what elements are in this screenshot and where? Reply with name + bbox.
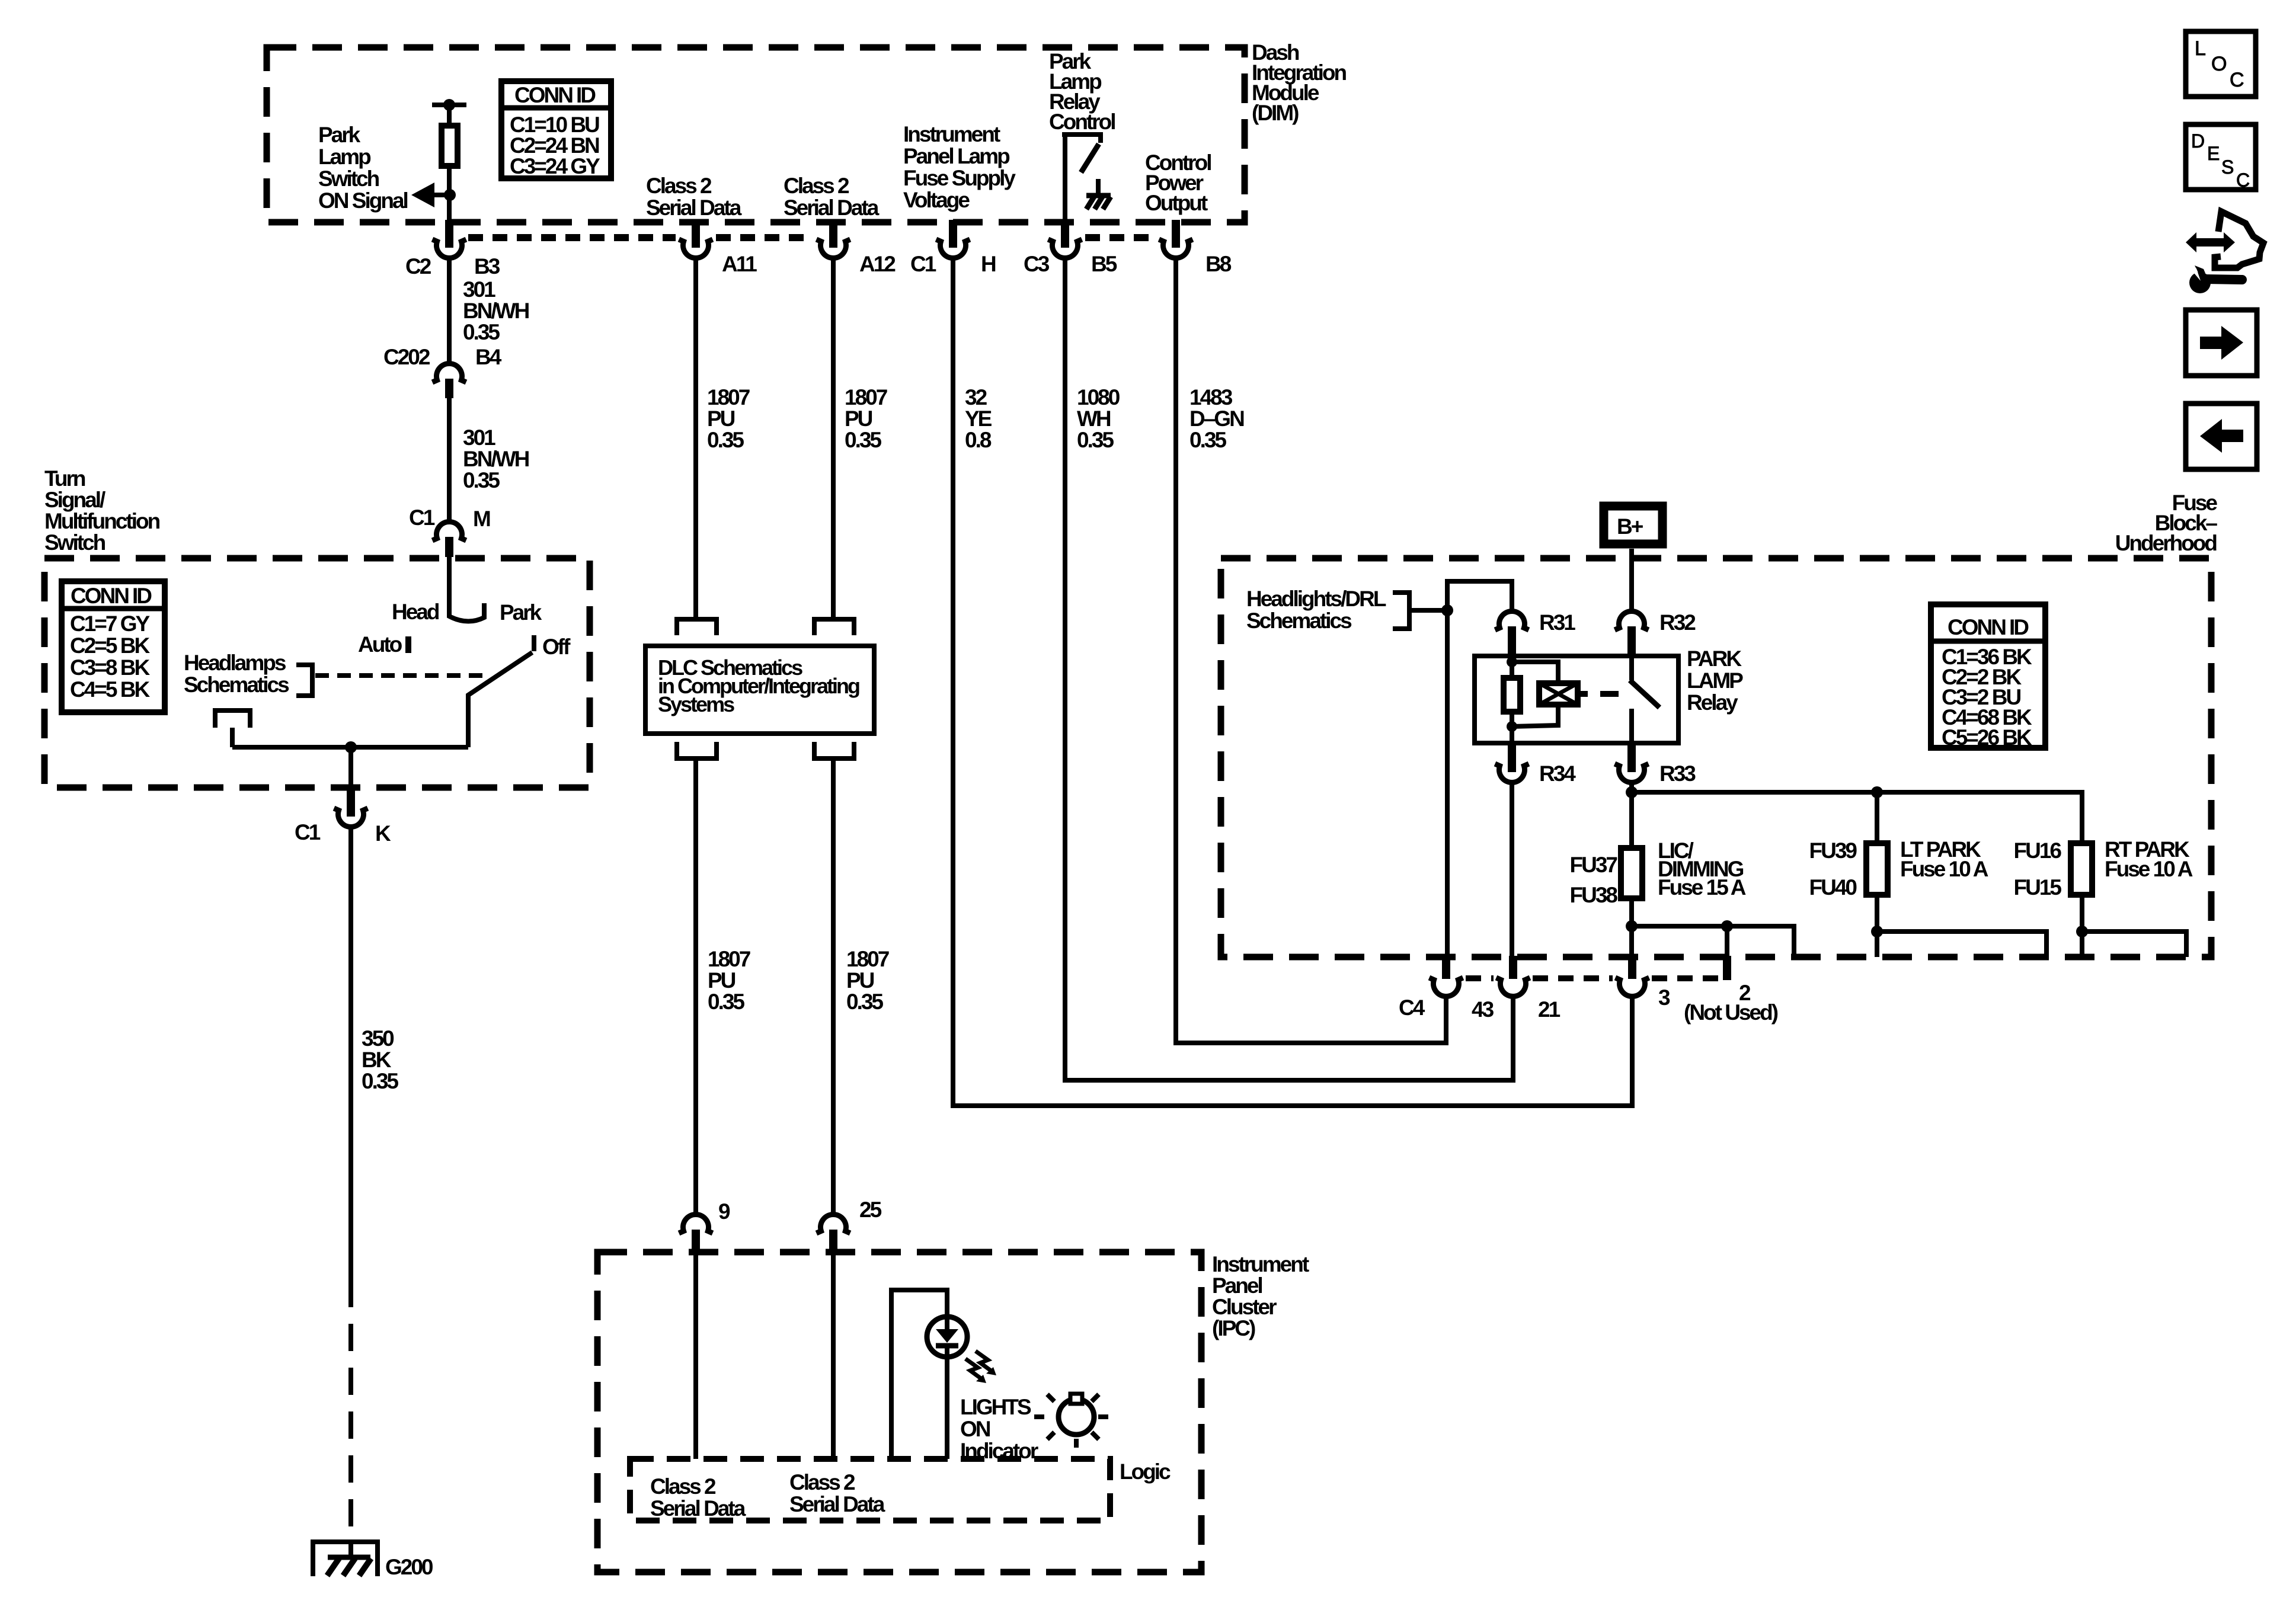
relay actuator dash [1600, 691, 1619, 697]
junction dot on stub bar [443, 99, 455, 111]
svg-text:Fuse Supply: Fuse Supply [903, 166, 1016, 190]
wire pin 25 to logic [831, 1253, 836, 1459]
fuse supply rail [1632, 792, 2082, 843]
connector R32 stub [1627, 626, 1636, 658]
svg-text:K: K [375, 821, 391, 846]
svg-text:C1: C1 [295, 820, 321, 844]
pin B3 stub [445, 220, 453, 248]
relay coil wire bottom [1510, 712, 1514, 743]
svg-text:PARK: PARK [1687, 646, 1742, 671]
connector R31 arc [1495, 612, 1529, 630]
svg-text:ON Signal: ON Signal [318, 188, 408, 213]
svg-text:G200: G200 [385, 1555, 433, 1579]
pin A11 connector arc [679, 239, 713, 258]
svg-text:CONNID: CONNID [71, 584, 152, 608]
svg-text:Multifunction: Multifunction [44, 509, 160, 533]
connector 9 arc [679, 1215, 713, 1233]
switch contact curve to Park [449, 603, 484, 622]
wire into turn signal switch [447, 557, 452, 605]
connector 25 arc [817, 1215, 850, 1233]
Instrument Panel Cluster (IPC) dashed box [597, 1252, 1201, 1572]
wire 1483 D-GN: B8 pin to fuse block connector 43 [1176, 256, 1446, 1043]
svg-text:Serial Data: Serial Data [650, 1496, 746, 1521]
svg-text:FU16: FU16 [2014, 838, 2062, 863]
connector 21 arc [1496, 978, 1530, 996]
fuse LIC/DIMMING FU37/38 [1621, 848, 1642, 898]
branch below RT fuse to edge [2082, 932, 2186, 957]
DLC Schematics box [645, 646, 874, 734]
bulb icon rays [1034, 1394, 1108, 1448]
ground G200 bracket [313, 1542, 378, 1576]
svg-text:C4=5 BK: C4=5 BK [70, 677, 150, 702]
svg-text:Voltage: Voltage [903, 188, 970, 212]
svg-text:3: 3 [1658, 985, 1670, 1010]
svg-text:PU: PU [708, 968, 736, 993]
svg-text:Instrument: Instrument [1212, 1252, 1309, 1276]
wire 301 BN/WH segment C202 to C1/M [447, 398, 452, 523]
connector 9 stub [692, 1230, 700, 1253]
svg-text:FU37: FU37 [1570, 853, 1617, 877]
wire R33 down to LIC fuse [1629, 780, 1634, 848]
B+ power symbol box [1604, 506, 1662, 544]
connector R31 stub [1508, 626, 1516, 658]
pin B5 stub [1061, 220, 1069, 248]
relay coil resistor [1504, 678, 1520, 712]
relay solenoid loop [1512, 662, 1558, 726]
icon: repair double arrow [2186, 232, 2235, 252]
headlamps stub bracket [215, 710, 250, 728]
wire LIC fuse down to connector 3 [1629, 898, 1634, 979]
svg-text:CONNID: CONNID [1948, 615, 2029, 639]
svg-text:R33: R33 [1659, 761, 1696, 786]
svg-text:BN/WH: BN/WH [463, 447, 529, 471]
pin 2 stub (not used) [1723, 956, 1731, 980]
wire R34 down to connector 21 [1510, 780, 1514, 957]
connector 3 arc [1616, 978, 1649, 996]
svg-text:Class 2: Class 2 [650, 1474, 716, 1499]
wire 1807 PU from DLC to pin 25 [831, 758, 836, 1216]
svg-text:Class 2: Class 2 [646, 174, 712, 198]
wire: common down to C1/K [348, 747, 353, 815]
svg-text:0.35: 0.35 [1189, 428, 1226, 452]
connector R33 arc [1615, 764, 1649, 782]
svg-text:0.35: 0.35 [1077, 428, 1114, 452]
svg-text:PU: PU [845, 406, 872, 431]
svg-text:Turn: Turn [44, 466, 85, 491]
svg-text:1807: 1807 [707, 385, 750, 409]
svg-text:Fuse 10 A: Fuse 10 A [2105, 857, 2193, 881]
svg-text:Schematics: Schematics [1246, 609, 1352, 633]
junction dot headlights tap [1441, 604, 1453, 616]
svg-text:Signal/: Signal/ [44, 488, 105, 512]
icon box LOC [2186, 31, 2256, 97]
junction dot R33 rail [1626, 786, 1638, 798]
svg-text:C1: C1 [910, 252, 936, 276]
svg-text:0.35: 0.35 [362, 1069, 398, 1093]
svg-text:301: 301 [463, 277, 495, 302]
connector R33 stub [1627, 743, 1636, 772]
pin H connector arc C1 [936, 239, 970, 258]
svg-text:Relay: Relay [1687, 690, 1738, 715]
svg-text:Class 2: Class 2 [784, 174, 849, 198]
wire LT fuse down [1875, 895, 1879, 957]
svg-text:Headlights/DRL: Headlights/DRL [1246, 587, 1386, 611]
headlights/DRL rail [1447, 581, 1512, 613]
junction dot not-used branch [1721, 920, 1733, 932]
switch common wire horizontal [232, 745, 468, 750]
CONN ID box (turn signal switch) [62, 581, 165, 712]
svg-text:Head: Head [392, 600, 439, 624]
svg-text:(IPC): (IPC) [1212, 1316, 1255, 1340]
svg-text:PU: PU [707, 406, 735, 431]
svg-text:L: L [2195, 37, 2205, 60]
connector C1/K stub [347, 788, 355, 817]
DLC lower-right stub bracket [814, 742, 854, 758]
svg-text:LIGHTS: LIGHTS [960, 1395, 1031, 1419]
svg-text:BK: BK [362, 1048, 392, 1072]
resistor: park lamp switch pull-up [442, 126, 458, 166]
svg-text:Underhood: Underhood [2115, 531, 2217, 555]
svg-text:1483: 1483 [1189, 385, 1233, 409]
svg-text:C3=24 GY: C3=24 GY [510, 154, 600, 178]
svg-text:Serial Data: Serial Data [646, 196, 742, 220]
svg-text:A11: A11 [722, 252, 757, 276]
svg-text:C2=5 BK: C2=5 BK [70, 633, 150, 658]
wire RT fuse down [2080, 895, 2084, 957]
connector C1/M arc [433, 522, 466, 540]
wire 350 BK dashed [348, 1280, 353, 1540]
svg-text:C202: C202 [383, 345, 430, 369]
svg-text:Switch: Switch [318, 167, 379, 191]
icon box right arrow [2186, 310, 2257, 376]
junction dot below LT fuse [1871, 926, 1883, 937]
svg-text:1807: 1807 [708, 947, 750, 971]
svg-text:1807: 1807 [845, 385, 887, 409]
svg-text:C: C [2230, 69, 2244, 91]
pin B8 stub [1172, 220, 1180, 248]
svg-text:301: 301 [463, 425, 495, 450]
connector 25 stub [829, 1230, 837, 1253]
LED loop wire [891, 1290, 947, 1459]
relay switch wire from R32 [1629, 656, 1634, 680]
svg-text:Cluster: Cluster [1212, 1295, 1277, 1319]
svg-text:C4: C4 [1399, 996, 1425, 1020]
svg-text:H: H [981, 252, 996, 276]
svg-text:BN/WH: BN/WH [463, 299, 529, 323]
ground hatches inside DIM [1086, 197, 1111, 209]
dotted connector line B5-B8 [1085, 234, 1156, 241]
svg-text:0.8: 0.8 [965, 428, 992, 452]
wire bracket to vertical [1409, 608, 1447, 613]
wire 1807 PU from DLC to pin 9 [693, 758, 698, 1216]
svg-text:ON: ON [960, 1417, 990, 1441]
fuse RT PARK FU16/15 [2071, 843, 2092, 895]
svg-text:Class 2: Class 2 [789, 1470, 855, 1494]
svg-text:Auto: Auto [358, 632, 402, 657]
svg-text:(DIM): (DIM) [1252, 101, 1299, 125]
svg-text:25: 25 [859, 1198, 882, 1222]
connector R34 arc [1495, 764, 1529, 782]
svg-text:43: 43 [1472, 997, 1494, 1022]
svg-text:R31: R31 [1539, 610, 1575, 635]
svg-text:Instrument: Instrument [903, 122, 1000, 146]
DLC lower-left stub bracket [677, 742, 717, 758]
wire 1807 PU from A12 down [831, 256, 836, 619]
svg-text:(Not Used): (Not Used) [1684, 1000, 1778, 1025]
wire 32 YE: H pin to fuse block connector 3 [953, 256, 1632, 1106]
junction dot coil top [1507, 657, 1517, 667]
wire pin 9 to logic [693, 1253, 698, 1459]
svg-text:D: D [2191, 130, 2204, 152]
svg-text:C3=8 BK: C3=8 BK [70, 655, 150, 680]
relay control switch wire (B5 pin up) [1062, 135, 1101, 222]
svg-text:C5=26 BK: C5=26 BK [1942, 725, 2032, 750]
connector R34 stub [1508, 743, 1516, 772]
connector C202 arc B4 [433, 364, 466, 382]
pin A11 stub [692, 220, 700, 248]
dotted connector line B3-A11-A12 [468, 234, 676, 241]
svg-text:Panel Lamp: Panel Lamp [903, 144, 1010, 168]
Turn Signal/Multifunction Switch dashed box [44, 558, 590, 788]
CONN ID box (DIM) [501, 81, 611, 178]
wire: resistor to junction [447, 166, 452, 222]
connector C1/M stub [445, 537, 453, 557]
junction dot at ON Signal arrow [444, 189, 456, 201]
svg-text:Headlamps: Headlamps [184, 651, 286, 675]
connector C202 stub [445, 379, 453, 398]
headlamps schematics bracket [296, 665, 312, 696]
ground G200 chassis bar [328, 1555, 370, 1560]
connector R32 arc [1615, 612, 1649, 630]
svg-text:0.35: 0.35 [845, 428, 881, 452]
wire: stub bar to resistor [447, 105, 452, 126]
relay control switch blade [1081, 144, 1099, 172]
svg-text:9: 9 [718, 1199, 730, 1224]
svg-text:CONNID: CONNID [514, 83, 596, 107]
pin A12 connector arc [817, 239, 850, 258]
ground stub inside DIM [1096, 179, 1101, 196]
stub to pin 2 [1725, 926, 1729, 956]
Dash Integration Module (DIM) dashed box [267, 47, 1245, 222]
svg-text:Park: Park [318, 123, 361, 147]
svg-text:PU: PU [846, 968, 874, 993]
svg-text:B3: B3 [474, 254, 500, 279]
connector C4/43 arc [1430, 978, 1463, 996]
svg-text:C2: C2 [405, 254, 431, 279]
svg-text:WH: WH [1077, 406, 1111, 431]
wire 1807 PU from A11 down [693, 256, 698, 619]
wire B+ to R32 [1629, 549, 1634, 613]
svg-text:YE: YE [965, 406, 992, 431]
relay switch lower contact [1629, 709, 1634, 743]
dashed line to Auto (headlamps schematics) [315, 673, 491, 678]
bulb icon base square [1070, 1394, 1082, 1404]
svg-text:C3: C3 [1024, 252, 1050, 276]
junction dot switch common [345, 741, 357, 753]
icon box DESC [2186, 124, 2256, 190]
wire 1080 WH: B5 pin to fuse block connector 21 [1065, 256, 1513, 1080]
LED triangle [936, 1329, 958, 1343]
LED lightning arrows [965, 1359, 983, 1380]
svg-text:B8: B8 [1205, 252, 1232, 276]
CONN ID box (fuse block) [1931, 604, 2045, 748]
svg-text:0.35: 0.35 [463, 320, 500, 344]
icon: repair part outline [2215, 212, 2263, 268]
Logic dashed box [630, 1459, 1110, 1521]
bulb icon circle [1059, 1399, 1094, 1435]
svg-text:Indicator: Indicator [960, 1439, 1038, 1463]
svg-text:0.35: 0.35 [463, 468, 500, 492]
pin B3 connector arc C2 [433, 239, 466, 258]
LED cathode bar [936, 1343, 958, 1349]
icon box left arrow [2186, 404, 2257, 469]
svg-text:Logic: Logic [1120, 1459, 1171, 1484]
wire 301 BN/WH segment B3 to C202 [447, 256, 452, 365]
svg-text:32: 32 [965, 385, 987, 409]
icon: wrench [2189, 272, 2211, 293]
svg-text:B4: B4 [475, 345, 502, 369]
svg-text:350: 350 [362, 1026, 394, 1051]
headlights/DRL bracket [1393, 593, 1409, 629]
svg-text:C: C [2236, 169, 2249, 191]
connector 3 stub [1628, 956, 1636, 979]
junction dot coil bottom [1507, 721, 1517, 732]
junction dot rail LT PARK [1871, 786, 1883, 798]
svg-text:FU38: FU38 [1570, 883, 1618, 907]
branch below LT fuse to edge [1877, 932, 2046, 957]
svg-text:0.35: 0.35 [846, 990, 883, 1014]
svg-text:Lamp: Lamp [318, 145, 371, 169]
DLC upper-right stub bracket [814, 619, 854, 635]
svg-text:A12: A12 [859, 252, 896, 276]
connector 21 stub [1509, 956, 1517, 979]
svg-text:Fuse 10 A: Fuse 10 A [1900, 857, 1988, 881]
svg-text:R32: R32 [1659, 610, 1696, 635]
svg-text:Schematics: Schematics [184, 673, 289, 697]
svg-text:Park: Park [500, 600, 542, 625]
dotted connector line C4 row [1466, 975, 1494, 981]
svg-text:0.35: 0.35 [708, 990, 744, 1014]
relay coil wire R31 down [1510, 656, 1514, 678]
svg-text:Output: Output [1145, 191, 1208, 215]
svg-text:FU39: FU39 [1809, 838, 1857, 863]
svg-text:R34: R34 [1539, 761, 1576, 786]
relay solenoid box with X [1539, 683, 1578, 705]
svg-text:FU15: FU15 [2014, 875, 2062, 900]
svg-text:FU40: FU40 [1809, 875, 1857, 900]
DLC upper-left stub bracket [677, 619, 717, 635]
svg-text:Serial Data: Serial Data [784, 196, 880, 220]
wire 350 BK solid [348, 825, 353, 1280]
svg-text:E: E [2207, 143, 2219, 164]
fuse LT PARK FU39/40 [1866, 843, 1888, 895]
svg-text:LAMP: LAMP [1687, 668, 1743, 693]
pin H stub [949, 220, 957, 248]
connector C4/43 stub [1442, 956, 1450, 979]
svg-text:0.35: 0.35 [707, 428, 744, 452]
branch below LIC fuse to edge [1632, 926, 1794, 957]
svg-text:1080: 1080 [1077, 385, 1120, 409]
svg-text:M: M [473, 507, 490, 531]
svg-text:Serial Data: Serial Data [789, 1492, 885, 1516]
svg-text:1807: 1807 [846, 947, 889, 971]
ground G200 hatches [327, 1558, 371, 1576]
node: Park Lamp Switch internal stub bar [432, 103, 466, 107]
junction dot below RT fuse [2076, 926, 2088, 937]
Off position tick [532, 635, 536, 651]
connector C1/K arc [334, 808, 368, 827]
switch blade from Off [468, 652, 532, 747]
LED circle indicator [927, 1317, 967, 1357]
svg-text:Panel: Panel [1212, 1273, 1262, 1298]
PARK LAMP Relay box [1475, 656, 1678, 743]
pin B8 connector arc [1159, 239, 1193, 258]
svg-text:Switch: Switch [44, 530, 105, 555]
wire: ON signal arrow stub [429, 193, 450, 197]
arrowhead: Park Lamp Switch ON Signal [411, 183, 434, 207]
wire up to headlamps stub bracket [230, 728, 235, 747]
svg-text:Systems: Systems [658, 692, 734, 716]
svg-text:C1=7 GY: C1=7 GY [70, 612, 151, 636]
ground G200 center stub [348, 1540, 353, 1557]
wire rail to LT fuse [1875, 792, 1879, 843]
Auto position tick [405, 636, 411, 653]
svg-text:S: S [2221, 156, 2233, 178]
junction dot below LIC fuse [1626, 920, 1638, 932]
svg-text:B+: B+ [1617, 514, 1643, 539]
Fuse Block-Underhood dashed box [1221, 558, 2211, 957]
svg-text:B5: B5 [1091, 252, 1117, 276]
svg-text:C1: C1 [409, 505, 435, 530]
pin A12 stub [829, 220, 837, 248]
svg-text:Fuse 15 A: Fuse 15 A [1658, 875, 1746, 900]
relay actuator stub [1578, 691, 1588, 697]
pin B5 connector arc C3 [1048, 239, 1082, 258]
wire headlights vertical down to connector 43 [1445, 610, 1450, 957]
svg-text:Off: Off [542, 635, 571, 659]
ground symbol bar inside DIM [1086, 193, 1111, 199]
svg-text:21: 21 [1538, 997, 1560, 1022]
svg-text:O: O [2211, 53, 2226, 75]
svg-text:D–GN: D–GN [1189, 406, 1244, 431]
relay switch blade [1630, 680, 1659, 708]
svg-text:Control: Control [1049, 110, 1115, 134]
